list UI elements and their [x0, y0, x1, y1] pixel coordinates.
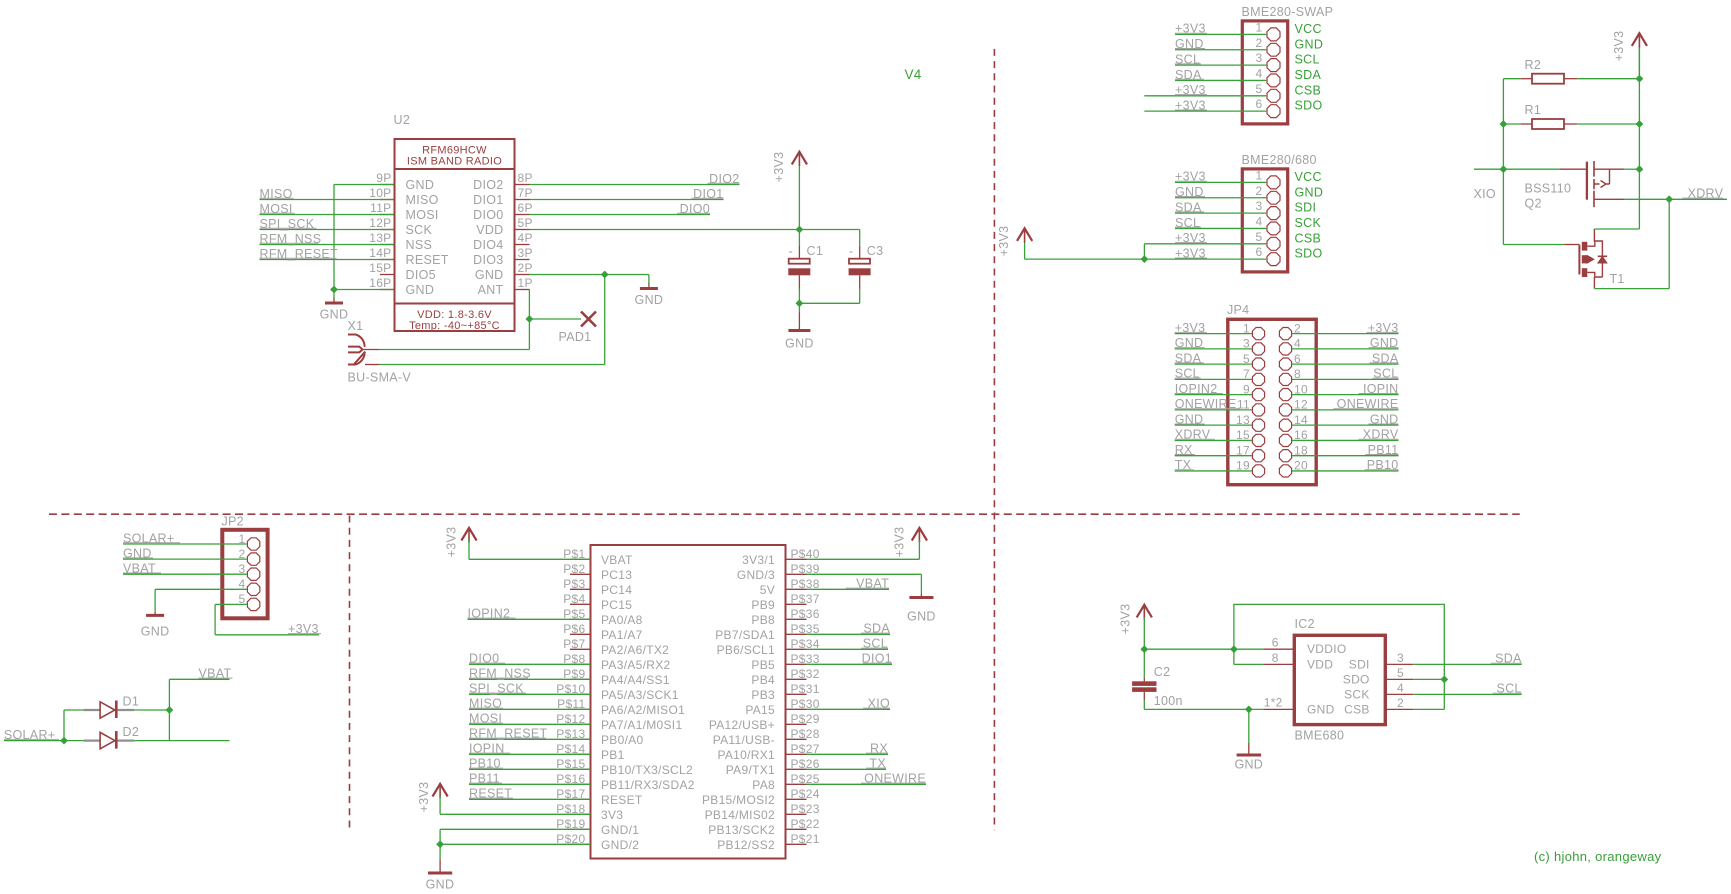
connector BME280/680 outline: [1242, 169, 1287, 272]
svg-text:10P: 10P: [369, 186, 391, 200]
wire net DIO2: [530, 184, 740, 186]
power symbol +3V3 at P$18: [433, 784, 448, 797]
JP4 pad 1: [1252, 328, 1264, 340]
wire net DIO0 to MCU: [469, 663, 591, 665]
wire X1 pin2 to 2P net: [379, 364, 605, 366]
JP4 pad 19: [1252, 465, 1264, 477]
svg-text:P$3: P$3: [563, 577, 585, 591]
svg-text:PA7/A1/M0SI1: PA7/A1/M0SI1: [601, 718, 682, 732]
svg-text:2: 2: [1397, 696, 1404, 710]
svg-text:3: 3: [1256, 199, 1263, 213]
svg-text:4: 4: [1256, 214, 1263, 228]
svg-text:PA5/A3/SCK1: PA5/A3/SCK1: [601, 688, 679, 702]
svg-text:P$4: P$4: [563, 592, 585, 606]
wire JP4 pin 7 net SCL: [1175, 378, 1252, 380]
svg-text:BSS110: BSS110: [1525, 182, 1572, 196]
svg-text:JP2: JP2: [222, 515, 244, 529]
wire JP2 pin4 to ground: [155, 588, 247, 590]
IC2 pin 3 SDI: [1385, 663, 1413, 665]
X1 pin 1 lead: [363, 349, 379, 351]
wire +3V3 to P$40: [807, 558, 920, 560]
MCU pin P$9 PA4/A4/SS1: [570, 678, 591, 680]
BME280/680 pad 5: [1267, 237, 1280, 250]
U2 pin 3P DIO3: [515, 259, 530, 261]
JP4 pad 15: [1252, 434, 1264, 446]
svg-text:GND/3: GND/3: [737, 568, 775, 582]
wire JP4 pin 9 net IOPIN2: [1175, 394, 1252, 396]
wire D2 cathode: [134, 740, 229, 742]
wire to BME280/680 pin 1: [1175, 181, 1266, 183]
junction Q2 drain: [1636, 165, 1644, 173]
svg-text:PB11/RX3/SDA2: PB11/RX3/SDA2: [601, 778, 695, 792]
wire U2 16P GND: [334, 289, 394, 291]
junction ANT PAD1: [526, 315, 534, 323]
svg-text:SDO: SDO: [1295, 99, 1323, 113]
JP2 pad 2: [247, 553, 259, 565]
MCU pin P$30 PA15: [786, 708, 807, 710]
svg-text:7P: 7P: [518, 186, 533, 200]
svg-text:RESET: RESET: [601, 793, 643, 807]
power symbol +3V3 at P$40: [912, 528, 927, 541]
wire D1 anode: [64, 709, 83, 711]
wire to BME280-SWAP pin 1: [1175, 33, 1266, 35]
wire net XIO: [1474, 168, 1560, 170]
MCU pin P$12 PA7/A1/M0SI1: [570, 723, 591, 725]
svg-text:GND: GND: [426, 878, 455, 892]
svg-text:X1: X1: [348, 319, 364, 333]
power symbol +3V3 top right: [1632, 33, 1647, 46]
svg-text:PA1/A7: PA1/A7: [601, 628, 643, 642]
wire net PB11 to MCU: [469, 783, 591, 785]
junction D1 cathode VBAT: [166, 706, 174, 714]
svg-text:+3V3: +3V3: [445, 527, 459, 558]
MCU pin P$7 PA2/A6/TX2: [570, 648, 591, 650]
svg-text:2: 2: [1256, 184, 1263, 198]
wire R1 left: [1503, 123, 1520, 125]
svg-text:9P: 9P: [376, 171, 391, 185]
svg-text:P$31: P$31: [791, 682, 820, 696]
svg-text:D2: D2: [123, 725, 140, 739]
wire net RFM_NSS: [260, 244, 394, 246]
svg-text:+3V3: +3V3: [1119, 604, 1133, 635]
MCU pin P$16 PB11/RX3/SDA2: [570, 783, 591, 785]
MCU pin P$36 PB8: [786, 618, 807, 620]
wire to BME280/680 pin 3: [1175, 212, 1266, 214]
wire +3V3 to VDDIO: [1144, 648, 1263, 650]
svg-text:ANT: ANT: [478, 283, 504, 297]
svg-text:SCK: SCK: [1344, 687, 1370, 701]
svg-text:P$23: P$23: [791, 802, 820, 816]
wire JP4 pin 20 net PB10: [1292, 470, 1398, 472]
wire R1 right: [1577, 123, 1639, 125]
svg-text:3V3: 3V3: [601, 808, 623, 822]
wire JP4 pin 12 net ONEWIRE: [1292, 409, 1398, 411]
connector JP2 outline: [222, 530, 267, 619]
svg-text:P$22: P$22: [791, 817, 820, 831]
MCU pin P$19 GND/1: [570, 828, 591, 830]
svg-text:P$21: P$21: [791, 832, 820, 846]
svg-text:(c) hjohn, orangeway: (c) hjohn, orangeway: [1534, 849, 1662, 864]
svg-text:GND: GND: [475, 268, 504, 282]
ground symbol right of U2: [648, 275, 650, 284]
svg-text:2: 2: [1256, 36, 1263, 50]
svg-text:15P: 15P: [369, 261, 391, 275]
svg-text:SCL: SCL: [1295, 53, 1320, 67]
MCU pin P$40 3V3/1: [786, 558, 807, 560]
svg-text:P$24: P$24: [791, 787, 820, 801]
junction VDDIO branch: [1230, 645, 1238, 653]
JP4 pad 14: [1279, 419, 1291, 431]
JP2 pad 3: [247, 568, 259, 580]
svg-text:IC2: IC2: [1295, 617, 1315, 631]
svg-text:PC13: PC13: [601, 568, 632, 582]
wire net SOLAR+: [4, 740, 84, 742]
wire right rail +3V3: [1638, 48, 1640, 230]
svg-text:ISM BAND RADIO: ISM BAND RADIO: [407, 156, 502, 168]
T1 gate lead: [1564, 244, 1579, 246]
MCU pin P$22 PB13/SCK2: [786, 828, 807, 830]
svg-text:PB15/MOSI2: PB15/MOSI2: [702, 793, 775, 807]
svg-text:D1: D1: [123, 695, 140, 709]
ground symbol below JP2: [154, 612, 156, 616]
wire R2 right: [1577, 78, 1639, 80]
svg-text:BME680: BME680: [1295, 729, 1345, 743]
svg-text:+3V3: +3V3: [997, 226, 1011, 257]
svg-text:GND/2: GND/2: [601, 838, 639, 852]
svg-text:SDO: SDO: [1295, 247, 1323, 261]
wire branch to VDD pin8: [1233, 649, 1235, 664]
JP4 pad 10: [1279, 389, 1291, 401]
wire top loop to CSB SDO: [1234, 604, 1444, 679]
wire net SDA from MCU: [807, 633, 891, 635]
svg-text:GND: GND: [785, 337, 814, 351]
wire net SPI_SCK to MCU: [469, 693, 591, 695]
svg-text:3: 3: [1397, 651, 1404, 665]
svg-text:P$28: P$28: [791, 727, 820, 741]
U2 pin 12P SCK: [380, 229, 395, 231]
power symbol +3V3 at P$1: [461, 528, 476, 541]
wire JP4 pin 1 net +3V3: [1175, 333, 1252, 335]
JP2 pad 1: [247, 538, 259, 550]
svg-text:6: 6: [1256, 97, 1263, 111]
svg-text:DIO3: DIO3: [473, 253, 503, 267]
MCU pin P$23 PB14/MIS02: [786, 813, 807, 815]
junction VDD rail: [796, 226, 804, 234]
svg-text:PB12/SS2: PB12/SS2: [717, 838, 775, 852]
MCU pin P$18 3V3: [570, 813, 591, 815]
wire U2 2P to GND: [530, 274, 649, 276]
svg-text:-: -: [789, 244, 794, 259]
BME280-SWAP pad 2: [1267, 43, 1280, 56]
wire net RX from MCU: [807, 753, 889, 755]
MCU pin P$24 PB15/MOSI2: [786, 798, 807, 800]
wire net IOPIN to MCU: [469, 753, 591, 755]
U2 pin 16P GND: [380, 289, 395, 291]
MCU pin P$1 VBAT: [570, 558, 591, 560]
svg-text:C2: C2: [1154, 665, 1171, 679]
IC2 BME680 outline: [1294, 635, 1385, 724]
wire left rail XIO: [1502, 79, 1504, 245]
IC2 pin 5 SDO: [1385, 678, 1413, 680]
X1 pin 2 lead: [365, 364, 379, 366]
MCU pin P$3 PC14: [570, 588, 591, 590]
JP4 pad 17: [1252, 450, 1264, 462]
svg-text:P$32: P$32: [791, 667, 820, 681]
wire +3V3 to pin6: [1025, 258, 1267, 260]
JP4 pad 9: [1252, 389, 1264, 401]
MCU pin P$37 PB9: [786, 603, 807, 605]
svg-text:5P: 5P: [518, 216, 533, 230]
junction R1 right: [1636, 120, 1644, 128]
svg-text:PA6/A2/MISO1: PA6/A2/MISO1: [601, 703, 685, 717]
svg-text:3: 3: [1256, 51, 1263, 65]
wire D1 cathode: [134, 709, 169, 711]
MCU pin P$5 PA0/A8: [570, 618, 591, 620]
junction XIO: [1500, 165, 1508, 173]
svg-text:PA15: PA15: [745, 703, 775, 717]
wire to PAD1: [529, 318, 581, 320]
svg-text:PB4: PB4: [751, 673, 775, 687]
wire CSB pin2: [1443, 679, 1445, 709]
svg-text:12P: 12P: [369, 216, 391, 230]
svg-text:+3V3: +3V3: [1612, 31, 1626, 62]
power symbol +3V3 above C1: [792, 152, 807, 165]
JP4 pad 8: [1279, 373, 1291, 385]
wire to BME280-SWAP pin 3: [1175, 64, 1266, 66]
svg-text:8P: 8P: [518, 171, 533, 185]
U2 pin 5P VDD: [515, 229, 530, 231]
wire net SPI_SCK: [260, 229, 394, 231]
svg-text:GND: GND: [1295, 185, 1324, 199]
ground symbol below IC2: [1248, 709, 1250, 743]
svg-text:1: 1: [1256, 20, 1263, 34]
wire net VBAT from MCU: [807, 588, 890, 590]
svg-text:5: 5: [1256, 82, 1263, 96]
BME280/680 pad 3: [1267, 207, 1280, 220]
svg-text:MISO: MISO: [406, 193, 439, 207]
svg-text:GND/1: GND/1: [601, 823, 639, 837]
MCU pin P$13 PB0/A0: [570, 738, 591, 740]
wire U2 VDD to +3V3 rail: [530, 229, 860, 231]
svg-text:V4: V4: [905, 67, 922, 82]
svg-text:2P: 2P: [518, 261, 533, 275]
JP4 pad 2: [1279, 328, 1291, 340]
wire net IOPIN2 to MCU: [468, 618, 591, 620]
BME280-SWAP pad 4: [1267, 74, 1280, 87]
svg-text:8: 8: [1272, 651, 1279, 665]
wire net DIO1: [530, 199, 724, 201]
wire net ONEWIRE from MCU: [807, 783, 927, 785]
svg-text:R1: R1: [1525, 103, 1542, 117]
MCU pin P$14 PB1: [570, 753, 591, 755]
svg-text:PB7/SDA1: PB7/SDA1: [715, 628, 775, 642]
diode D1: [83, 709, 100, 711]
MCU pin P$26 PA9/TX1: [786, 768, 807, 770]
svg-text:5: 5: [1397, 666, 1404, 680]
MCU pin P$33 PB5: [786, 663, 807, 665]
svg-text:DIO0: DIO0: [473, 208, 503, 222]
header JP4 outline: [1228, 319, 1316, 484]
wire R2 left: [1503, 78, 1520, 80]
test pad PAD1: [581, 312, 596, 327]
MCU pin P$21 PB12/SS2: [786, 843, 807, 845]
svg-text:VBAT: VBAT: [601, 553, 633, 567]
svg-text:SCK: SCK: [1295, 216, 1322, 230]
svg-text:SDA: SDA: [1295, 68, 1322, 82]
svg-text:BME280-SWAP: BME280-SWAP: [1242, 5, 1334, 19]
MCU pin P$28 PA11/USB-: [786, 738, 807, 740]
wire Q2 drain: [1624, 168, 1639, 170]
svg-text:T1: T1: [1610, 272, 1625, 286]
svg-text:VCC: VCC: [1295, 170, 1322, 184]
MCU pin P$31 PB3: [786, 693, 807, 695]
MCU pin P$25 PA8: [786, 783, 807, 785]
wire net SCL from MCU: [807, 648, 889, 650]
wire JP4 pin 13 net GND: [1175, 424, 1252, 426]
U2 pin 6P DIO0: [515, 214, 530, 216]
svg-text:PB1: PB1: [601, 748, 625, 762]
svg-text:+3V3: +3V3: [893, 527, 907, 558]
wire JP4 pin 17 net RX: [1175, 455, 1252, 457]
JP4 pad 7: [1252, 373, 1264, 385]
svg-text:C3: C3: [867, 244, 884, 258]
wire to BME280-SWAP pin 5: [1144, 95, 1266, 97]
svg-text:PA9/TX1: PA9/TX1: [726, 763, 775, 777]
wire JP4 pin 14 net GND: [1292, 424, 1398, 426]
wire net MISO: [260, 199, 394, 201]
MCU pin P$11 PA6/A2/MISO1: [570, 708, 591, 710]
connector BME280-SWAP outline: [1242, 21, 1287, 124]
junction SOLAR+: [60, 737, 68, 745]
svg-text:CSB: CSB: [1344, 702, 1370, 716]
svg-text:6P: 6P: [518, 201, 533, 215]
junction R2 right: [1636, 75, 1644, 83]
svg-text:11P: 11P: [370, 201, 391, 215]
MCU pin P$6 PA1/A7: [570, 633, 591, 635]
svg-text:GND: GND: [320, 308, 349, 322]
svg-text:GND: GND: [907, 610, 936, 624]
MCU pin P$34 PB6/SCL1: [786, 648, 807, 650]
JP4 pad 5: [1252, 358, 1264, 370]
svg-text:Q2: Q2: [1525, 197, 1542, 211]
JP2 pad 5: [247, 598, 259, 610]
svg-text:PA0/A8: PA0/A8: [601, 613, 643, 627]
svg-text:DIO5: DIO5: [406, 268, 436, 282]
MCU module outline: [591, 545, 786, 859]
wire net MOSI to MCU: [469, 723, 591, 725]
wire Q2 source to XDRV: [1624, 198, 1669, 200]
svg-text:PC15: PC15: [601, 598, 632, 612]
svg-text:PA12/USB+: PA12/USB+: [709, 718, 775, 732]
svg-text:Temp: -40~+85°C: Temp: -40~+85°C: [409, 320, 500, 332]
JP4 pad 3: [1252, 343, 1264, 355]
wire to BME280-SWAP pin 4: [1175, 79, 1266, 81]
wire C2 to IC2 GND: [1144, 708, 1263, 710]
partition dashed line horizontal: [49, 513, 1520, 515]
BME280/680 pad 2: [1267, 191, 1280, 204]
svg-text:GND: GND: [406, 178, 435, 192]
svg-text:XIO: XIO: [1474, 187, 1496, 201]
wire JP4 pin 8 net SCL: [1292, 378, 1398, 380]
svg-text:SDI: SDI: [1295, 201, 1317, 215]
junction C1 bottom: [796, 299, 804, 307]
MCU pin P$38 5V: [786, 588, 807, 590]
svg-text:DIO4: DIO4: [473, 238, 503, 252]
wire T1 bottom to XDRV: [1594, 288, 1669, 290]
JP4 pad 12: [1279, 404, 1291, 416]
wire +3V3 down to VDD rail: [798, 166, 800, 230]
wire JP4 pin 16 net XDRV: [1292, 439, 1398, 441]
junction +3V3 pins 5/6: [1141, 255, 1149, 263]
wire net XIO from MCU: [807, 708, 891, 710]
svg-text:5V: 5V: [760, 583, 775, 597]
partition dashed line vertical center: [993, 49, 995, 830]
wire net SCL at IC2: [1413, 693, 1522, 695]
wire JP4 pin 10 net IOPIN: [1292, 394, 1398, 396]
U2 pin 9P GND: [380, 184, 395, 186]
svg-text:100n: 100n: [1154, 694, 1183, 708]
svg-text:4: 4: [1397, 681, 1404, 695]
svg-text:3V3/1: 3V3/1: [742, 553, 775, 567]
U2 pin 2P GND: [515, 274, 530, 276]
svg-text:GND: GND: [406, 283, 435, 297]
wire +3V3 to P$18: [440, 813, 590, 815]
svg-text:BME280/680: BME280/680: [1242, 153, 1317, 167]
ground symbol below MCU: [439, 844, 441, 859]
svg-text:P$36: P$36: [791, 607, 820, 621]
wire net TX from MCU: [807, 768, 887, 770]
wire C1 to C3 bottom: [799, 302, 859, 304]
wire to BME280-SWAP pin 2: [1175, 49, 1266, 51]
BME280-SWAP pad 5: [1267, 89, 1280, 102]
junction P$19 P$20: [436, 840, 444, 848]
MCU pin P$27 PA10/RX1: [786, 753, 807, 755]
wire net RFM_NSS to MCU: [469, 678, 591, 680]
partition dashed line vertical left: [349, 516, 351, 830]
svg-text:VCC: VCC: [1295, 22, 1322, 36]
svg-text:3P: 3P: [518, 246, 533, 260]
MCU pin P$10 PA5/A3/SCK1: [570, 693, 591, 695]
wire solar rail: [63, 710, 65, 741]
power symbol +3V3 at IC2: [1137, 605, 1152, 618]
transistor Q2 BSS110: [1560, 168, 1586, 170]
wire JP2 pin 2 net GND: [123, 558, 247, 560]
power symbol +3V3 feeding BME280/680: [1017, 228, 1032, 241]
junction SDO: [1440, 676, 1448, 684]
U2 pin 13P NSS: [380, 244, 395, 246]
wire net DIO0: [530, 214, 711, 216]
svg-text:P$37: P$37: [791, 592, 820, 606]
junction GND branch: [1245, 706, 1253, 714]
svg-text:GND: GND: [635, 293, 664, 307]
wire to BME280/680 pin 2: [1175, 197, 1266, 199]
junction C2 top: [1140, 645, 1148, 653]
transistor T1: [1594, 229, 1602, 256]
wire to BME280-SWAP pin 6: [1144, 110, 1266, 112]
MCU pin P$32 PB4: [786, 678, 807, 680]
svg-text:DIO1: DIO1: [473, 193, 503, 207]
wire net RFM_RESET: [260, 259, 394, 261]
junction at 16P GND: [330, 286, 338, 294]
svg-text:PAD1: PAD1: [559, 330, 592, 344]
wire X1 pin1 to ANT: [379, 349, 529, 351]
svg-text:16P: 16P: [369, 276, 391, 290]
wire net DIO1 from MCU: [807, 663, 893, 665]
svg-text:MOSI: MOSI: [406, 208, 439, 222]
IC2 pin 1*2 GND: [1264, 708, 1295, 710]
svg-text:PB3: PB3: [751, 688, 775, 702]
MCU pin P$2 PC13: [570, 573, 591, 575]
